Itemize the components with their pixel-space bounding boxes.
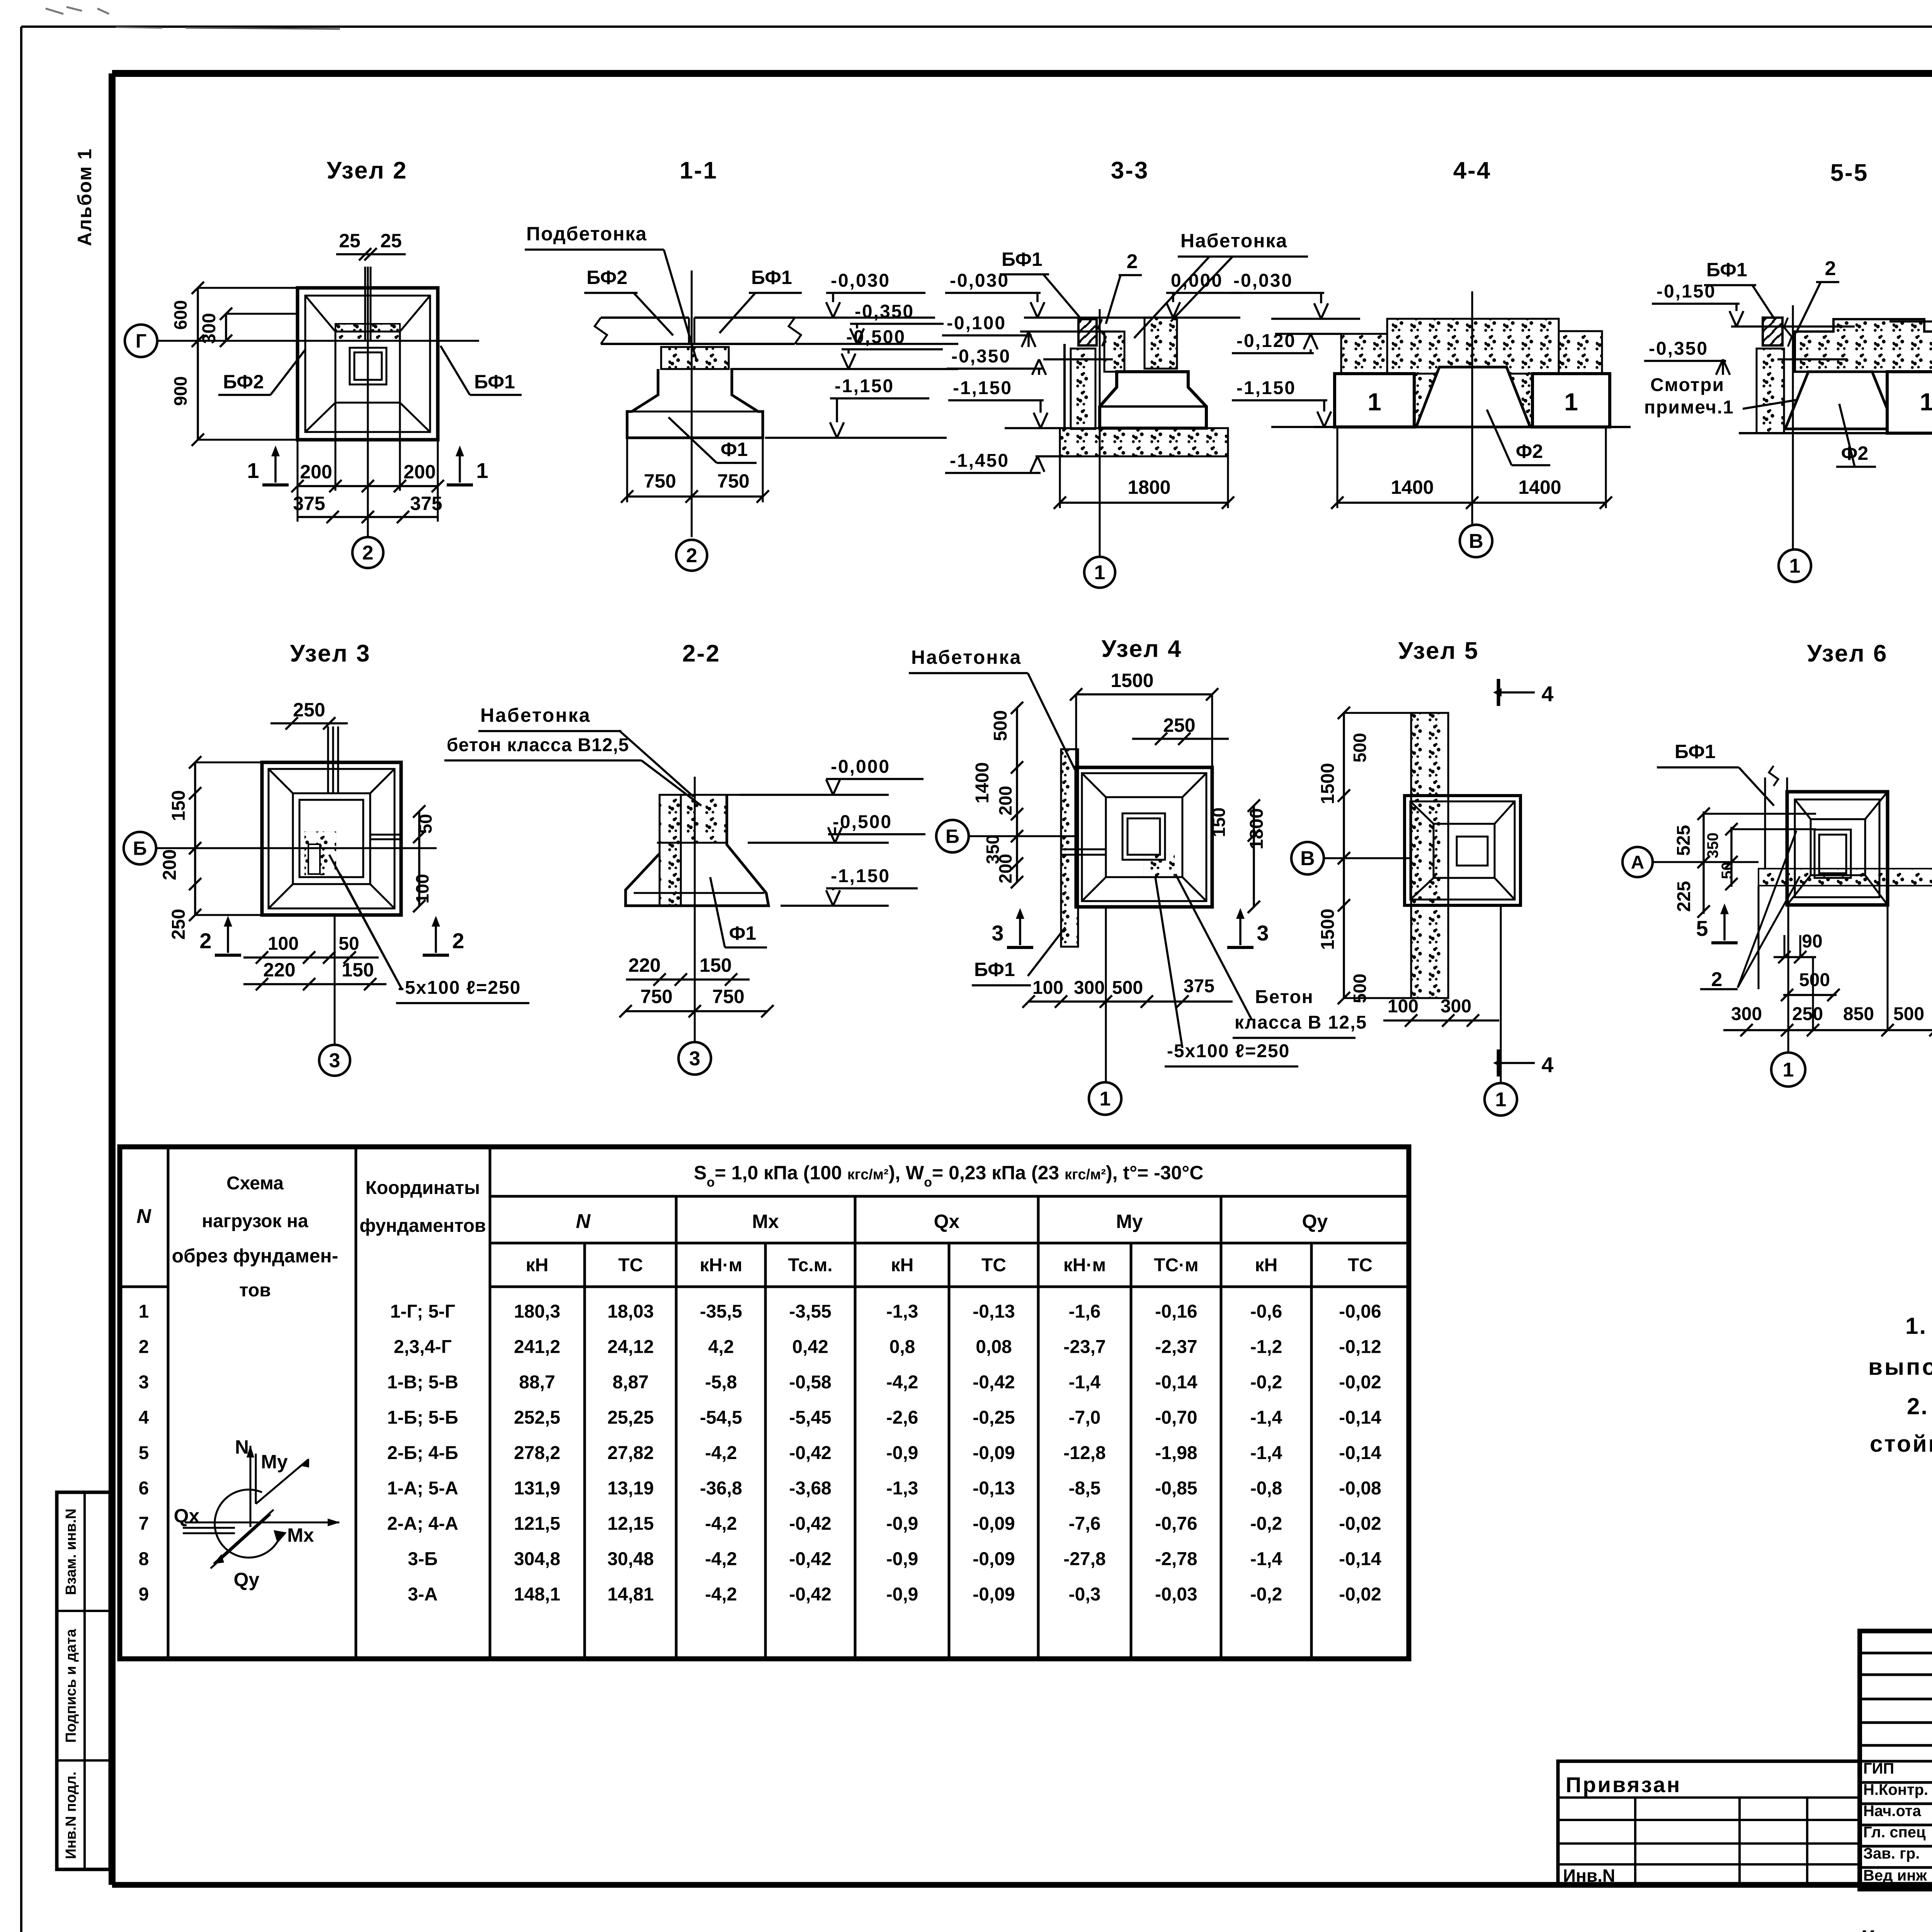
svg-text:-1,150: -1,150	[1236, 378, 1296, 398]
svg-text:кН: кН	[1255, 1255, 1278, 1276]
svg-text:Узел 2: Узел 2	[327, 157, 407, 184]
svg-text:4-4: 4-4	[1453, 157, 1492, 184]
svg-text:Mx: Mx	[287, 1524, 314, 1546]
svg-text:3: 3	[329, 1049, 340, 1072]
svg-text:500: 500	[1799, 970, 1830, 990]
svg-text:-7,0: -7,0	[1069, 1408, 1101, 1428]
svg-text:Узел 3: Узел 3	[290, 640, 371, 667]
svg-text:-0,14: -0,14	[1339, 1408, 1381, 1428]
svg-text:ТС·м: ТС·м	[1154, 1255, 1198, 1276]
svg-text:300: 300	[1440, 996, 1471, 1017]
svg-text:БФ1: БФ1	[974, 959, 1015, 980]
svg-text:-0,13: -0,13	[973, 1478, 1015, 1499]
svg-text:обрез фундамен-: обрез фундамен-	[172, 1245, 338, 1267]
svg-text:300: 300	[1074, 978, 1105, 998]
svg-text:225: 225	[1674, 881, 1694, 912]
svg-text:150: 150	[168, 790, 189, 821]
svg-text:1: 1	[1920, 388, 1932, 416]
svg-text:1: 1	[139, 1301, 149, 1322]
svg-text:-0,000: -0,000	[831, 757, 890, 777]
svg-text:14,81: 14,81	[607, 1584, 654, 1605]
svg-text:0,42: 0,42	[792, 1337, 828, 1357]
svg-text:-1,4: -1,4	[1069, 1372, 1101, 1393]
svg-text:БФ2: БФ2	[223, 371, 264, 393]
svg-text:375: 375	[1184, 976, 1214, 997]
svg-text:-1,150: -1,150	[835, 376, 894, 396]
svg-text:12,15: 12,15	[607, 1514, 654, 1534]
svg-text:750: 750	[712, 986, 744, 1007]
svg-text:Подпись и дата: Подпись и дата	[63, 1629, 79, 1743]
svg-text:N: N	[136, 1205, 151, 1228]
svg-text:0,8: 0,8	[889, 1337, 915, 1357]
svg-text:-1,150: -1,150	[831, 866, 890, 886]
svg-text:5-5: 5-5	[1830, 160, 1869, 186]
svg-text:3: 3	[139, 1372, 149, 1393]
svg-text:нагрузок на: нагрузок на	[202, 1211, 308, 1231]
svg-text:Смотри: Смотри	[1650, 375, 1725, 395]
svg-text:-0,500: -0,500	[846, 327, 906, 347]
svg-text:-5x100 ℓ=250: -5x100 ℓ=250	[398, 978, 521, 998]
svg-text:Ф2: Ф2	[1516, 440, 1543, 462]
svg-text:Набетонка: Набетонка	[911, 646, 1022, 668]
svg-text:А: А	[1631, 852, 1645, 873]
svg-text:-0,02: -0,02	[1339, 1372, 1381, 1393]
svg-text:Инв.N подл.: Инв.N подл.	[63, 1772, 79, 1859]
svg-text:500: 500	[1350, 733, 1370, 763]
svg-text:Qу: Qу	[1302, 1211, 1328, 1232]
svg-text:-4,2: -4,2	[886, 1372, 918, 1393]
svg-text:350: 350	[1704, 833, 1721, 859]
svg-text:-0,2: -0,2	[1250, 1584, 1282, 1605]
svg-text:Ф2: Ф2	[1841, 442, 1868, 464]
svg-text:2: 2	[686, 544, 697, 567]
svg-text:-5x100 ℓ=250: -5x100 ℓ=250	[1167, 1041, 1290, 1061]
svg-text:100: 100	[1032, 978, 1063, 998]
svg-text:1800: 1800	[1128, 476, 1170, 498]
svg-text:1-Б; 5-Б: 1-Б; 5-Б	[387, 1408, 458, 1428]
svg-text:ТС: ТС	[618, 1255, 643, 1276]
svg-text:5: 5	[1696, 916, 1708, 940]
svg-text:-1,2: -1,2	[1250, 1337, 1282, 1357]
svg-text:200: 200	[300, 461, 332, 483]
svg-text:-0,02: -0,02	[1339, 1514, 1381, 1534]
svg-text:1500: 1500	[1111, 670, 1153, 691]
svg-text:-1,3: -1,3	[886, 1478, 918, 1499]
svg-text:6: 6	[139, 1478, 149, 1499]
svg-text:-0,09: -0,09	[973, 1443, 1015, 1463]
svg-text:525: 525	[1673, 825, 1694, 856]
svg-text:1-В; 5-В: 1-В; 5-В	[387, 1372, 458, 1393]
svg-text:50: 50	[415, 814, 435, 833]
svg-text:ГИП: ГИП	[1863, 1760, 1894, 1777]
svg-text:Привязан: Привязан	[1566, 1772, 1681, 1797]
svg-text:-0,8: -0,8	[1250, 1478, 1282, 1499]
svg-text:-0,42: -0,42	[789, 1584, 831, 1605]
svg-text:Тс.м.: Тс.м.	[788, 1255, 832, 1276]
svg-text:Qx: Qx	[174, 1505, 200, 1527]
svg-text:2-Б; 4-Б: 2-Б; 4-Б	[387, 1443, 458, 1463]
svg-text:1: 1	[1564, 388, 1578, 416]
svg-text:600: 600	[170, 300, 190, 330]
svg-text:-2,6: -2,6	[886, 1408, 918, 1428]
svg-text:-1,98: -1,98	[1155, 1443, 1197, 1463]
svg-text:2: 2	[1711, 968, 1723, 991]
svg-text:кН: кН	[891, 1255, 914, 1276]
svg-text:БФ1: БФ1	[1002, 248, 1043, 270]
svg-text:1: 1	[1367, 388, 1381, 416]
svg-text:фундаментов: фундаментов	[359, 1216, 486, 1236]
svg-text:Набетонка: Набетонка	[480, 704, 591, 726]
svg-text:121,5: 121,5	[514, 1514, 560, 1534]
svg-text:25,25: 25,25	[607, 1408, 654, 1428]
svg-text:2: 2	[1825, 257, 1836, 280]
svg-text:-1,6: -1,6	[1069, 1301, 1101, 1322]
svg-text:Инв.N: Инв.N	[1563, 1866, 1615, 1886]
svg-text:2: 2	[199, 929, 211, 953]
svg-text:-1,4: -1,4	[1250, 1549, 1282, 1570]
svg-text:2: 2	[1127, 250, 1138, 273]
svg-text:-4,2: -4,2	[705, 1549, 737, 1570]
svg-text:1800: 1800	[1247, 808, 1267, 850]
svg-text:-0,030: -0,030	[1233, 270, 1293, 291]
svg-text:1: 1	[476, 458, 488, 483]
svg-text:Вед инж: Вед инж	[1863, 1867, 1927, 1884]
svg-text:100: 100	[268, 934, 299, 954]
svg-text:2,3,4-Г: 2,3,4-Г	[394, 1337, 452, 1357]
svg-text:-0,42: -0,42	[973, 1372, 1015, 1393]
svg-text:1: 1	[1495, 1088, 1507, 1111]
svg-text:2. Отверстия диаметром 20мм по: 2. Отверстия диаметром 20мм под болты дл…	[1907, 1393, 1932, 1419]
svg-text:90: 90	[1802, 931, 1822, 952]
svg-text:-0,76: -0,76	[1155, 1514, 1197, 1534]
svg-text:24,12: 24,12	[607, 1337, 654, 1357]
svg-text:В: В	[1469, 530, 1483, 553]
svg-text:Узел 4: Узел 4	[1101, 636, 1182, 662]
svg-text:250: 250	[168, 909, 189, 940]
svg-text:30,48: 30,48	[607, 1549, 654, 1570]
svg-text:300: 300	[199, 313, 219, 344]
svg-text:50: 50	[1719, 862, 1736, 879]
svg-text:-1,450: -1,450	[950, 451, 1009, 471]
svg-text:БФ1: БФ1	[1675, 741, 1716, 762]
svg-text:-1,4: -1,4	[1250, 1408, 1282, 1428]
svg-text:Ф1: Ф1	[729, 922, 756, 944]
svg-text:-0,09: -0,09	[973, 1549, 1015, 1570]
svg-text:1400: 1400	[1391, 476, 1434, 498]
svg-text:220: 220	[263, 959, 295, 981]
svg-text:1400: 1400	[1518, 476, 1561, 498]
svg-text:ТС: ТС	[981, 1255, 1006, 1276]
svg-text:-0,14: -0,14	[1339, 1443, 1381, 1463]
svg-text:Копировал: Копировал	[1861, 1926, 1932, 1932]
svg-text:класса В 12,5: класса В 12,5	[1235, 1012, 1367, 1033]
svg-text:200: 200	[995, 854, 1015, 884]
svg-text:-0,350: -0,350	[1649, 338, 1708, 359]
svg-text:-8,5: -8,5	[1069, 1478, 1101, 1499]
svg-text:Бетон: Бетон	[1255, 987, 1314, 1007]
svg-text:-0,350: -0,350	[855, 301, 914, 322]
svg-text:-0,85: -0,85	[1155, 1478, 1197, 1499]
svg-text:N: N	[576, 1210, 591, 1233]
svg-text:-27,8: -27,8	[1063, 1549, 1105, 1570]
svg-text:131,9: 131,9	[514, 1478, 560, 1499]
svg-text:примеч.1: примеч.1	[1644, 397, 1734, 418]
svg-text:кН: кН	[526, 1255, 549, 1276]
svg-text:200: 200	[995, 786, 1015, 816]
svg-text:Mх: Mх	[752, 1211, 779, 1232]
svg-text:-3,68: -3,68	[789, 1478, 831, 1499]
svg-text:4,2: 4,2	[708, 1337, 734, 1357]
svg-text:13,19: 13,19	[607, 1478, 654, 1499]
svg-text:выполнить насечки для связи с: выполнить насечки для связи с набетонкам…	[1868, 1354, 1932, 1380]
svg-text:БФ2: БФ2	[587, 267, 628, 288]
svg-text:-4,2: -4,2	[705, 1514, 737, 1534]
svg-text:Набетонка: Набетонка	[1180, 230, 1287, 252]
svg-text:150: 150	[699, 954, 731, 976]
svg-text:-0,06: -0,06	[1339, 1301, 1381, 1322]
svg-text:-0,030: -0,030	[831, 270, 890, 291]
svg-text:БФ1: БФ1	[1706, 259, 1747, 281]
svg-text:Подбетонка: Подбетонка	[526, 223, 647, 245]
svg-text:-0,9: -0,9	[886, 1514, 918, 1534]
svg-text:-0,09: -0,09	[973, 1514, 1015, 1534]
svg-text:8: 8	[139, 1549, 149, 1570]
svg-text:3: 3	[1257, 921, 1269, 945]
svg-text:25: 25	[339, 230, 361, 252]
svg-text:1: 1	[1100, 1088, 1111, 1110]
svg-text:-0,03: -0,03	[1155, 1584, 1197, 1605]
svg-text:-0,2: -0,2	[1250, 1372, 1282, 1393]
svg-text:-0,350: -0,350	[951, 346, 1011, 367]
svg-text:-4,2: -4,2	[705, 1584, 737, 1605]
svg-text:500: 500	[990, 710, 1011, 741]
svg-text:-4,2: -4,2	[705, 1443, 737, 1463]
svg-text:18,03: 18,03	[607, 1301, 654, 1322]
svg-text:-0,58: -0,58	[789, 1372, 831, 1393]
svg-text:200: 200	[403, 461, 435, 483]
svg-text:-7,6: -7,6	[1069, 1514, 1101, 1534]
svg-text:300: 300	[1731, 1004, 1762, 1024]
svg-text:1: 1	[1789, 555, 1801, 577]
svg-text:My: My	[261, 1451, 288, 1473]
svg-text:4: 4	[1541, 682, 1553, 706]
svg-text:-0,42: -0,42	[789, 1514, 831, 1534]
svg-text:250: 250	[1163, 714, 1195, 736]
svg-text:Нач.ота: Нач.ота	[1863, 1803, 1922, 1820]
svg-text:100: 100	[1388, 996, 1418, 1017]
svg-text:4: 4	[139, 1408, 149, 1428]
svg-text:кН·м: кН·м	[700, 1255, 742, 1276]
svg-text:1. На наклонных поверхностях с: 1. На наклонных поверхностях сборных фун…	[1905, 1313, 1932, 1339]
svg-text:50: 50	[338, 934, 359, 954]
svg-text:Схема: Схема	[226, 1173, 284, 1194]
svg-text:-0,02: -0,02	[1339, 1584, 1381, 1605]
svg-text:-2,37: -2,37	[1155, 1337, 1197, 1357]
svg-text:150: 150	[1209, 808, 1229, 837]
svg-text:-1,150: -1,150	[953, 378, 1012, 398]
svg-text:-2,78: -2,78	[1155, 1549, 1197, 1570]
svg-text:100: 100	[412, 874, 432, 904]
svg-text:-23,7: -23,7	[1063, 1337, 1105, 1357]
svg-text:Гл. спец: Гл. спец	[1863, 1824, 1926, 1841]
svg-text:250: 250	[293, 699, 325, 721]
svg-text:-0,3: -0,3	[1069, 1584, 1101, 1605]
svg-text:2-2: 2-2	[682, 640, 721, 667]
svg-text:Н.Контр.: Н.Контр.	[1863, 1781, 1928, 1798]
svg-text:750: 750	[717, 470, 749, 492]
svg-text:750: 750	[644, 470, 676, 492]
svg-text:850: 850	[1843, 1004, 1874, 1024]
svg-text:5: 5	[139, 1443, 149, 1463]
svg-text:-0,42: -0,42	[789, 1549, 831, 1570]
svg-text:-0,09: -0,09	[973, 1584, 1015, 1605]
svg-text:-35,5: -35,5	[700, 1301, 742, 1322]
svg-text:0,000: 0,000	[1171, 270, 1223, 291]
svg-text:27,82: 27,82	[607, 1443, 654, 1463]
svg-text:Qy: Qy	[234, 1569, 260, 1590]
svg-text:3-А: 3-А	[408, 1584, 437, 1605]
svg-text:Узел 6: Узел 6	[1807, 640, 1888, 667]
svg-text:Ф1: Ф1	[721, 439, 748, 460]
svg-text:-0,16: -0,16	[1155, 1301, 1197, 1322]
svg-text:1400: 1400	[972, 762, 993, 804]
svg-text:-0,25: -0,25	[973, 1408, 1015, 1428]
svg-text:Qх: Qх	[934, 1211, 960, 1232]
svg-text:-0,030: -0,030	[950, 270, 1009, 291]
svg-text:3: 3	[689, 1048, 701, 1070]
svg-text:200: 200	[160, 849, 180, 880]
svg-text:1-Г; 5-Г: 1-Г; 5-Г	[390, 1301, 455, 1322]
svg-text:Взам. инв.N: Взам. инв.N	[63, 1509, 79, 1595]
svg-text:8,87: 8,87	[612, 1372, 648, 1393]
svg-text:250: 250	[1792, 1004, 1823, 1024]
svg-text:Узел 5: Узел 5	[1398, 638, 1479, 664]
svg-text:220: 220	[628, 954, 660, 976]
svg-text:N: N	[235, 1436, 249, 1458]
svg-text:Координаты: Координаты	[366, 1178, 480, 1198]
svg-text:148,1: 148,1	[514, 1584, 560, 1605]
svg-text:1: 1	[1094, 561, 1105, 584]
svg-text:-0,13: -0,13	[973, 1301, 1015, 1322]
svg-text:БФ1: БФ1	[474, 371, 515, 393]
svg-text:-12,8: -12,8	[1063, 1443, 1105, 1463]
svg-text:-0,12: -0,12	[1339, 1337, 1381, 1357]
svg-text:-0,100: -0,100	[947, 313, 1006, 333]
svg-text:-1,3: -1,3	[886, 1301, 918, 1322]
svg-text:2-А; 4-А: 2-А; 4-А	[387, 1514, 458, 1534]
svg-text:бетон класса В12,5: бетон класса В12,5	[447, 735, 629, 755]
svg-text:В: В	[1300, 847, 1315, 870]
svg-text:88,7: 88,7	[519, 1372, 555, 1393]
svg-text:-0,6: -0,6	[1250, 1301, 1282, 1322]
svg-text:1-А; 5-А: 1-А; 5-А	[387, 1478, 458, 1499]
svg-text:-54,5: -54,5	[700, 1408, 742, 1428]
svg-text:2: 2	[452, 929, 464, 953]
svg-text:241,2: 241,2	[514, 1337, 560, 1357]
svg-text:ТС: ТС	[1348, 1255, 1372, 1276]
svg-text:500: 500	[1112, 978, 1143, 998]
svg-text:-0,9: -0,9	[886, 1584, 918, 1605]
svg-text:-0,150: -0,150	[1656, 281, 1716, 302]
svg-text:-0,08: -0,08	[1339, 1478, 1381, 1499]
svg-text:1500: 1500	[1318, 909, 1338, 950]
svg-text:278,2: 278,2	[514, 1443, 560, 1463]
svg-text:304,8: 304,8	[514, 1549, 560, 1570]
svg-text:БФ1: БФ1	[751, 267, 792, 288]
svg-text:9: 9	[139, 1584, 149, 1605]
svg-text:25: 25	[380, 230, 402, 252]
svg-text:Б: Б	[946, 826, 959, 847]
svg-text:-0,9: -0,9	[886, 1549, 918, 1570]
svg-text:-5,45: -5,45	[789, 1408, 831, 1428]
svg-text:Г: Г	[136, 330, 146, 352]
svg-text:-1,4: -1,4	[1250, 1443, 1282, 1463]
svg-text:0,08: 0,08	[976, 1337, 1012, 1357]
svg-text:252,5: 252,5	[514, 1408, 560, 1428]
svg-text:стойки ворот высверлить при ус: стойки ворот высверлить при установке во…	[1870, 1431, 1932, 1457]
svg-text:-36,8: -36,8	[700, 1478, 742, 1499]
svg-text:2: 2	[362, 542, 374, 564]
svg-text:1: 1	[1783, 1059, 1794, 1081]
svg-text:-0,14: -0,14	[1155, 1372, 1197, 1393]
svg-text:7: 7	[139, 1514, 149, 1534]
svg-text:-0,42: -0,42	[789, 1443, 831, 1463]
svg-text:-3,55: -3,55	[789, 1301, 831, 1322]
svg-text:-0,2: -0,2	[1250, 1514, 1282, 1534]
svg-text:Зав. гр.: Зав. гр.	[1863, 1845, 1920, 1862]
svg-text:4: 4	[1541, 1053, 1553, 1077]
svg-text:1: 1	[247, 458, 259, 483]
svg-text:Б: Б	[133, 838, 147, 859]
svg-text:1500: 1500	[1318, 763, 1338, 804]
svg-text:900: 900	[170, 376, 190, 406]
svg-text:3: 3	[992, 921, 1003, 945]
svg-text:-0,14: -0,14	[1339, 1549, 1381, 1570]
svg-text:-0,9: -0,9	[886, 1443, 918, 1463]
svg-text:1-1: 1-1	[680, 157, 718, 184]
svg-text:150: 150	[342, 959, 374, 981]
svg-text:750: 750	[640, 986, 672, 1007]
svg-text:180,3: 180,3	[514, 1301, 560, 1322]
svg-text:-0,70: -0,70	[1155, 1408, 1197, 1428]
svg-text:3-3: 3-3	[1111, 157, 1149, 184]
svg-text:Альбом 1: Альбом 1	[74, 148, 95, 246]
svg-text:3-Б: 3-Б	[408, 1549, 437, 1570]
svg-text:-5,8: -5,8	[705, 1372, 737, 1393]
svg-text:2: 2	[139, 1337, 149, 1357]
svg-text:500: 500	[1893, 1004, 1924, 1024]
svg-text:Mу: Mу	[1116, 1211, 1143, 1232]
svg-text:тов: тов	[239, 1280, 271, 1301]
svg-text:кН·м: кН·м	[1063, 1255, 1106, 1276]
